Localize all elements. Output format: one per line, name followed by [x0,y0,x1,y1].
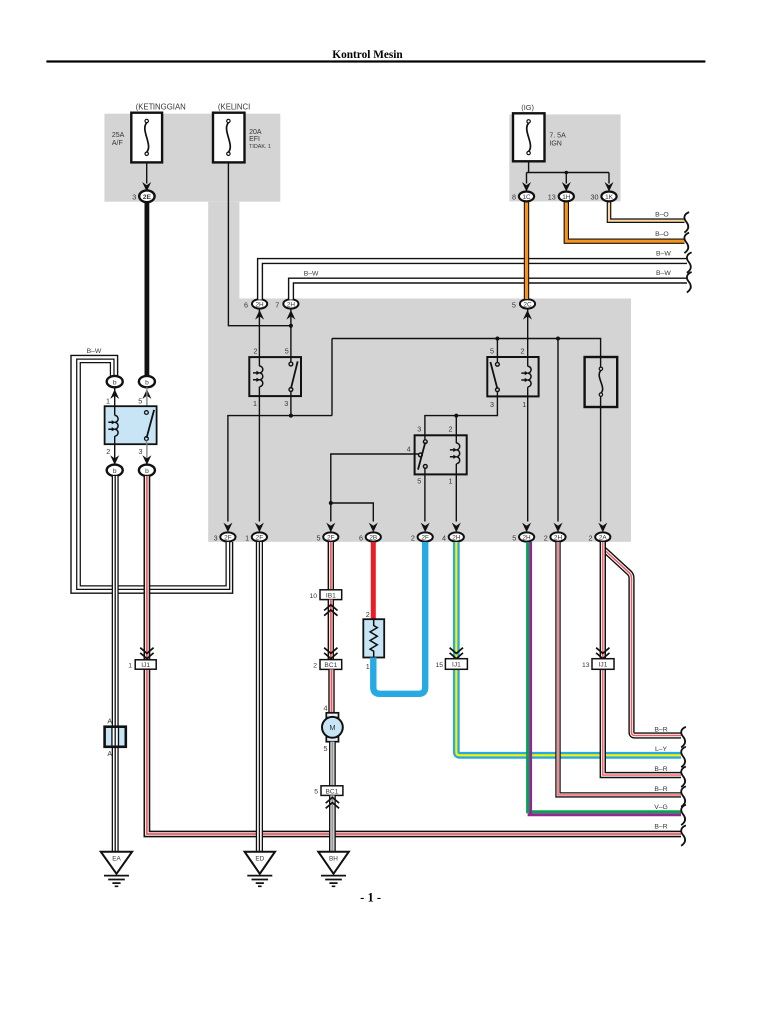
svg-text:2: 2 [254,347,258,356]
junction connector 2-BC1 [313,660,341,670]
node junction relay R1 pin3 [289,414,293,418]
junction connector 10-IB1 [309,590,341,600]
svg-text:IJ1: IJ1 [599,662,608,669]
svg-text:5: 5 [314,789,318,796]
wire relay R1 pin3 down [290,391,292,415]
junction block shading top-left [104,114,280,202]
connector 5-2F [317,523,339,543]
junction connector 15-IJ1 [435,659,467,670]
svg-text:A: A [107,719,112,726]
svg-text:5: 5 [512,533,516,542]
svg-text:6: 6 [244,300,248,309]
chevron junction below IB1 [324,605,337,616]
wire red 6-2B to resistor [371,542,376,619]
chevron junction below BC1 [326,797,339,808]
motor M [322,713,343,742]
svg-text:BC1: BC1 [326,788,339,795]
svg-text:IJ1: IJ1 [452,662,461,669]
wire gray motor to BC1 [329,742,336,786]
connector 3-2F [214,523,236,543]
svg-text:2: 2 [313,663,317,670]
connector b left-top [107,376,123,399]
svg-text:2H: 2H [523,535,532,542]
wire black 2E to relay RB [144,202,149,376]
svg-text:2H: 2H [287,302,296,309]
connector 7-2H [275,299,298,319]
wire R salmon IB1 to BC1 [328,600,334,660]
svg-text:A/F: A/F [112,140,123,147]
wire 5-2C to relay R3 coil [527,309,529,366]
svg-text:2F: 2F [421,535,429,542]
svg-text:IJ1: IJ1 [141,662,150,669]
svg-text:M: M [329,723,335,732]
svg-text:7: 7 [275,300,279,309]
wire W-B to EA ground [112,476,119,851]
svg-text:5: 5 [285,347,289,356]
connector 4-2H [442,523,464,543]
junction connector 5-BC1 [314,786,343,796]
wire gray BC1 to BH ground [329,795,336,851]
wire relay R3 pin5 feed [496,339,498,364]
svg-text:13: 13 [548,193,556,202]
svg-text:B–O: B–O [655,231,669,238]
svg-text:8: 8 [512,193,516,202]
svg-text:2: 2 [449,425,453,434]
svg-text:2A: 2A [599,535,608,542]
relay RB main [105,406,157,444]
junction block shading middle [208,299,631,542]
svg-text:b: b [145,468,149,475]
svg-text:BH: BH [329,855,338,862]
break squiggle B-R bottom [681,825,686,845]
ground BH [318,852,349,887]
svg-text:2: 2 [366,610,370,619]
node junction 5-2F branch [329,501,333,505]
wire B-O orange from 1H [566,202,684,242]
connector 2-2H [544,523,566,543]
svg-text:(IG): (IG) [521,103,534,112]
wire V-G violet from 5-2H [528,542,681,815]
resistor fuel pump [363,619,384,657]
break squiggle B-O 1 [684,212,689,232]
svg-text:7. 5A: 7. 5A [549,133,566,140]
node junction bus to 2-2H [556,337,560,341]
svg-text:2: 2 [544,533,548,542]
connector 5-2H [512,523,534,543]
title Kontrol Mesin [332,49,403,61]
svg-text:2F: 2F [224,535,232,542]
chevron junction above 13-IJ1 [596,648,609,659]
svg-text:1: 1 [449,477,453,486]
break squiggle L-Y [681,747,686,767]
wire bus horizontal [332,339,601,368]
svg-text:b: b [145,379,149,386]
svg-text:5: 5 [417,477,421,486]
svg-text:15: 15 [435,662,443,669]
wire B-W from 6-2H [260,261,687,300]
svg-text:ED: ED [255,855,264,862]
svg-text:2: 2 [521,347,525,356]
svg-text:2H: 2H [452,535,461,542]
node junction relay R2 pin2 [454,414,458,418]
wire fuse F4 to 2-2A [600,394,602,522]
wire B-W loop outline from 3-2F to relay RB [79,361,228,588]
svg-text:1: 1 [366,662,370,671]
wire B-O pale from 1K [609,202,685,221]
svg-text:B–R: B–R [654,726,667,733]
svg-text:A: A [107,751,112,758]
fuse F1 25A A/F [131,113,162,163]
junction connector 13-IJ1 [582,659,614,670]
svg-text:2B: 2B [369,535,377,542]
wire B-R branch from 2-2A [604,550,681,736]
svg-text:1: 1 [245,533,249,542]
connector 5-2C [512,299,535,319]
svg-text:2: 2 [106,447,110,456]
wire 5-2F riser to relay R2 pin4 [331,454,419,522]
svg-text:10: 10 [309,593,317,600]
connector 2-2A [589,523,611,543]
svg-text:1: 1 [522,400,526,409]
svg-text:2: 2 [589,533,593,542]
wire B-W from 7-2H [291,281,687,300]
junction block shading column [208,202,239,299]
svg-text:5: 5 [317,533,321,542]
connector 6-2H [244,299,267,319]
svg-text:EFI: EFI [249,136,260,143]
connector 6-2B [359,523,381,543]
fuse F2 20A EFI [213,113,245,163]
break squiggle B-O 2 [684,233,689,253]
svg-text:b: b [113,379,117,386]
wire relay R3 pin1 to 5-2H [527,387,529,521]
svg-text:(KETINGGIAN: (KETINGGIAN [136,103,186,112]
chevron junction above BC1 [324,648,337,659]
svg-text:1: 1 [253,399,257,408]
svg-text:1: 1 [128,662,132,669]
wire fuse F1 to 3-2E [146,162,148,183]
svg-text:TIDAK. 1: TIDAK. 1 [249,144,271,150]
svg-text:(KELINCI: (KELINCI [218,103,250,112]
svg-text:2F: 2F [256,535,264,542]
break squiggle B-R 1 [681,727,686,747]
relay R2 [407,425,467,486]
wire EFI fuse to relay node [228,162,291,325]
svg-text:20A: 20A [249,129,262,136]
break squiggle B-R 3 [681,786,686,806]
svg-text:4: 4 [442,533,446,542]
wire branch to 6-2B [331,503,374,522]
wire relay R2 pin5 to 2-2F [424,467,426,522]
svg-text:25A: 25A [112,132,125,139]
svg-text:2H: 2H [256,302,265,309]
wire pin2 to oval [114,444,116,465]
svg-text:B–O: B–O [655,211,669,218]
svg-text:V–G: V–G [654,804,668,811]
svg-text:B–R: B–R [654,824,667,831]
svg-text:4: 4 [324,704,328,713]
wire bus to 2-2H [557,339,559,522]
break squiggle B-R 2 [681,767,686,787]
svg-text:3: 3 [214,533,218,542]
ground EA [101,852,132,887]
svg-text:6: 6 [359,533,363,542]
svg-text:1C: 1C [522,194,531,201]
relay R1 [249,347,301,409]
chevron junction above 15-IJ1 [450,648,463,659]
wire relay R2 pin1 to 4-2H [455,464,457,522]
svg-text:EA: EA [112,855,121,862]
svg-text:b: b [113,468,117,475]
wire W-B double to ED ground [256,542,263,851]
wire pin5 stub [146,387,148,412]
svg-text:5: 5 [324,744,328,753]
connector b right-top [139,376,155,399]
relay R3 [487,347,538,409]
wire pin3 to oval [146,444,148,465]
svg-text:3: 3 [284,399,288,408]
svg-text:4: 4 [407,444,411,453]
svg-text:B–W: B–W [304,270,319,277]
connector b right-bottom [139,455,155,476]
svg-text:L–Y: L–Y [655,746,668,753]
header rule [46,60,705,62]
wire IG fuse distribution [527,161,610,183]
junction block shading top-right [509,114,620,201]
wire R salmon BC1 to motor [328,669,334,713]
svg-text:5: 5 [512,300,516,309]
wire B-W loop companion line [71,355,233,593]
fuse F4 [585,357,618,407]
connector 2-2F [411,523,433,543]
svg-text:5: 5 [138,396,142,405]
svg-text:13: 13 [582,662,590,669]
break squiggle B-W 2 [687,272,692,292]
wire B-R from relay RB to IJ1 [147,476,681,834]
wire B-R from 2-2H [558,542,681,795]
wire orange 1C to 5-2C [524,202,529,300]
wire relay R2 pin3 to relay R3 pin3 [425,392,498,440]
svg-text:5: 5 [490,347,494,356]
ground ED [245,852,275,887]
connector A [105,719,126,759]
wire 7-2H to relay R1 switch [290,309,292,362]
connector 3-2E [132,182,154,202]
svg-text:B–W: B–W [656,250,671,257]
break squiggle B-W 1 [687,252,692,272]
svg-text:2C: 2C [523,302,532,309]
chevron junction above IJ1 [140,648,153,659]
wire L cyan 2-2F to resistor [373,542,425,694]
svg-text:2E: 2E [143,194,152,201]
wire relay R2 pin2 coil feed [455,416,457,444]
wire L-Y 4-2H down [456,542,681,755]
wire horizontal to 3-2F [228,416,332,522]
wire B-R from 2-2A straight [603,542,681,775]
svg-text:2F: 2F [327,535,335,542]
wire pin1 stub [114,387,116,415]
connector 13-1H [548,182,574,202]
junction connector 1-IJ1 [128,660,156,670]
svg-text:2H: 2H [554,535,563,542]
connector b left-bottom [107,455,123,476]
svg-text:3: 3 [490,400,494,409]
svg-text:IB1: IB1 [326,592,336,599]
svg-text:B–R: B–R [654,786,667,793]
svg-text:30: 30 [591,193,599,202]
svg-text:B–W: B–W [87,348,102,355]
node junction bus to relay R3 [495,337,499,341]
wire R salmon 5-2F to IB1 [328,542,334,590]
svg-text:1K: 1K [605,194,614,201]
node junction 1H [565,171,569,175]
svg-text:- 1 -: - 1 - [360,891,381,905]
svg-text:1H: 1H [562,194,571,201]
svg-text:B–R: B–R [654,766,667,773]
wire V-G green from 5-2H [528,542,681,812]
fuse F3 7.5A IGN [513,113,545,161]
connector 8-1C [512,182,534,202]
wire 6-2H to relay R1 coil to 1-2F [258,309,260,522]
svg-text:B–W: B–W [656,270,671,277]
svg-text:3: 3 [417,425,421,434]
svg-text:BC1: BC1 [324,662,337,669]
svg-text:3: 3 [132,193,136,202]
svg-text:3: 3 [139,447,143,456]
svg-text:IGN: IGN [549,141,561,148]
connector 1-2F [245,523,267,543]
svg-text:2: 2 [411,533,415,542]
svg-text:1: 1 [106,396,110,405]
break squiggle V-G [681,805,686,825]
connector 30-1K [591,182,617,202]
wire bus riser [331,339,333,416]
svg-text:Kontrol Mesin: Kontrol Mesin [332,49,403,61]
node junction at 7-2H wire [289,324,293,328]
